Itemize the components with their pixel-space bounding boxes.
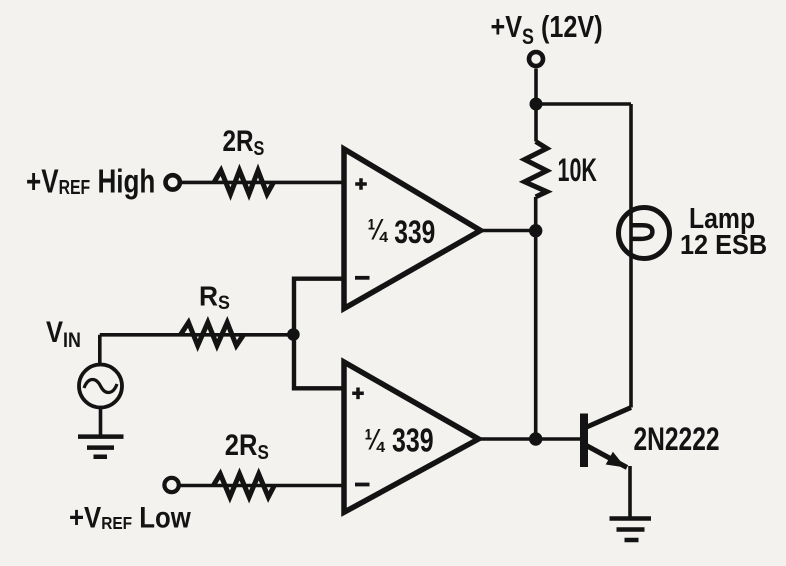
transistor Q1 base bar <box>580 414 588 468</box>
junction node U1 output <box>529 224 542 237</box>
op-amp U2 (1/4 339) <box>344 362 479 512</box>
label +Vs (12V) <box>491 8 603 49</box>
svg-text:¼: ¼ <box>368 212 389 246</box>
wire +Vref Low input <box>180 484 344 488</box>
wire lamp/collector column <box>629 104 633 408</box>
svg-text:12 ESB: 12 ESB <box>680 229 767 260</box>
terminal +Vref Low <box>164 478 178 492</box>
wire U1 output <box>481 229 536 233</box>
U2 minus input marking <box>355 483 370 487</box>
wire +Vref High input <box>181 181 344 185</box>
label +Vref High <box>26 164 155 201</box>
transistor Q1 emitter <box>585 445 628 468</box>
label Vin <box>46 315 81 352</box>
junction node U2 output <box>529 432 542 445</box>
terminal +Vref High <box>166 175 180 189</box>
wire runner between output nodes <box>534 231 538 439</box>
wire top rail to lamp branch <box>536 102 631 106</box>
resistor 10K (vertical zigzag) <box>525 142 547 197</box>
svg-text:+VS (12V): +VS (12V) <box>491 8 603 49</box>
label +Vref Low <box>69 501 191 534</box>
AC source Vin <box>79 365 122 408</box>
label 2Rs top <box>223 124 265 160</box>
label Lamp <box>689 202 755 234</box>
label 1/4 339 upper <box>368 212 389 246</box>
junction node Vin <box>287 328 300 341</box>
label 2N2222 <box>634 422 720 458</box>
svg-text:339: 339 <box>392 423 434 459</box>
label 12 ESB <box>680 229 767 260</box>
U1 plus input marking <box>355 178 367 190</box>
lamp L1 <box>619 208 670 259</box>
resistor Rs (zigzag) <box>181 323 244 346</box>
wire U1 minus input bracket <box>294 279 344 389</box>
wire Vin drop to source <box>98 335 102 365</box>
U1 minus input marking <box>355 276 370 280</box>
wire junction to 10K top <box>534 104 538 142</box>
svg-text:339: 339 <box>394 215 435 251</box>
wire Vin row <box>100 333 294 337</box>
svg-text:+VREF High: +VREF High <box>26 164 155 201</box>
resistor 2Rs bottom (zigzag) <box>213 474 274 497</box>
svg-text:2N2222: 2N2222 <box>634 422 720 458</box>
ground Vin <box>78 437 124 457</box>
label 10K <box>558 152 598 188</box>
wire emitter to ground <box>628 466 632 518</box>
op-amp U1 (1/4 339) <box>344 149 481 309</box>
junction node top rail <box>530 98 543 111</box>
label 1/4 339 lower <box>365 422 386 456</box>
transistor Q1 emitter arrow <box>606 452 626 468</box>
resistor 2Rs top (zigzag) <box>214 171 274 195</box>
ground Q1 <box>610 519 652 541</box>
transistor Q1 collector <box>585 408 632 429</box>
power terminal +Vs <box>529 52 543 66</box>
lamp filament loop <box>633 225 653 239</box>
AC source sine wave <box>84 379 117 392</box>
U2 plus input marking <box>352 388 364 400</box>
svg-text:10K: 10K <box>558 152 598 188</box>
wire from +Vs terminal to junction <box>534 69 538 105</box>
wire source to ground <box>99 408 103 436</box>
label Rs <box>199 280 230 313</box>
label 2Rs bottom <box>225 428 269 463</box>
wire 10K bottom to output node <box>534 197 538 231</box>
svg-text:¼: ¼ <box>365 422 386 456</box>
wire U2 output to base <box>479 437 581 441</box>
